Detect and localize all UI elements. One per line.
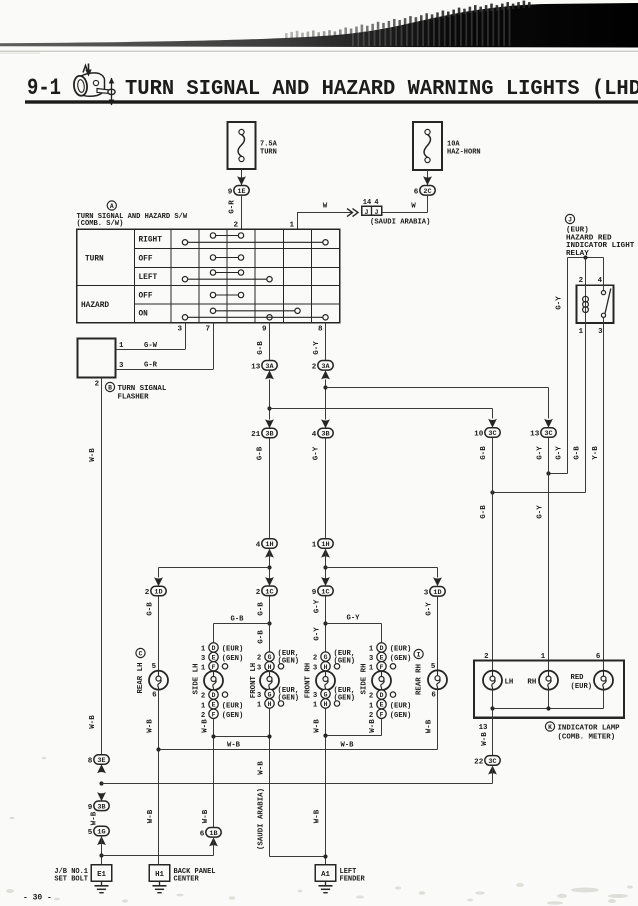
svg-text:TURN SIGNAL AND HAZARD WARNING: TURN SIGNAL AND HAZARD WARNING LIGHTS (L… xyxy=(125,77,638,101)
switch pin 2 label xyxy=(233,222,238,230)
svg-text:HAZARD RED: HAZARD RED xyxy=(566,234,612,242)
svg-text:2: 2 xyxy=(145,589,150,597)
wire 3C-22 to ground bus xyxy=(492,765,494,783)
svg-text:E: E xyxy=(212,655,216,662)
connector 1D pin 3 rear RH xyxy=(424,587,445,598)
Side LH connector F top xyxy=(201,662,228,673)
wire W-B side LH to front LH bus xyxy=(211,734,271,738)
svg-text:2: 2 xyxy=(95,381,99,389)
svg-text:W-B: W-B xyxy=(147,809,155,823)
svg-text:3B: 3B xyxy=(321,431,329,439)
Side RH connector D bottom xyxy=(369,690,396,701)
svg-text:4: 4 xyxy=(374,199,378,207)
svg-text:E: E xyxy=(380,655,384,662)
arrow into 3C pin 10 xyxy=(488,419,497,428)
switch table row group labels xyxy=(81,256,109,311)
junction dot rear-right branch xyxy=(323,565,327,569)
svg-text:REAR LH: REAR LH xyxy=(137,662,145,693)
svg-text:1: 1 xyxy=(119,342,124,350)
svg-text:8: 8 xyxy=(88,758,93,766)
svg-text:A1: A1 xyxy=(321,871,330,879)
svg-text:G-B: G-B xyxy=(257,630,265,644)
svg-text:3: 3 xyxy=(257,692,262,700)
svg-text:F: F xyxy=(212,664,216,671)
svg-text:F: F xyxy=(380,711,384,718)
Front RH connector G top xyxy=(313,650,355,666)
title text xyxy=(125,77,638,101)
svg-text:G-B: G-B xyxy=(257,446,265,460)
svg-text:HAZ-HORN: HAZ-HORN xyxy=(447,149,481,157)
svg-text:2: 2 xyxy=(256,589,261,597)
svg-text:ON: ON xyxy=(139,311,149,319)
svg-text:RH: RH xyxy=(527,678,536,686)
svg-text:H: H xyxy=(268,664,272,671)
arrow into connector 2C xyxy=(423,176,432,185)
indicator lamp RED EUR xyxy=(571,671,614,691)
svg-text:E1: E1 xyxy=(97,871,106,879)
connector 3C pin 10 xyxy=(474,428,500,439)
junction dot front lamps to A1 xyxy=(323,854,327,858)
Side RH connector F top xyxy=(369,662,396,673)
svg-text:1: 1 xyxy=(313,702,318,710)
wire W junction block to connector 2C xyxy=(382,203,428,213)
svg-text:SIDE RH: SIDE RH xyxy=(361,663,369,694)
combination switch contact table xyxy=(77,229,340,323)
svg-text:1: 1 xyxy=(201,702,206,710)
svg-text:(COMB. METER): (COMB. METER) xyxy=(558,734,616,742)
svg-text:G: G xyxy=(268,654,272,661)
svg-text:9: 9 xyxy=(262,326,267,334)
switch pin 1 label xyxy=(289,222,294,230)
Side LH turn signal lamp xyxy=(204,671,223,690)
svg-text:1: 1 xyxy=(257,702,262,710)
switch contacts TURN OFF xyxy=(210,255,243,260)
connector 3B pin 21 xyxy=(251,428,277,439)
indicator pin 13 wire W-B down xyxy=(479,709,493,756)
svg-text:4: 4 xyxy=(598,277,603,285)
svg-text:G-B: G-B xyxy=(257,602,265,616)
arrow into 3B pin 9 xyxy=(97,792,106,801)
rear RH lamp pin 6 xyxy=(431,691,436,699)
svg-text:3C: 3C xyxy=(488,430,496,438)
svg-text:W-B: W-B xyxy=(369,719,377,733)
junction block J J connector pins 14 4 xyxy=(362,199,382,216)
arrow into 3B pin 21 xyxy=(265,419,274,428)
Front RH connector H bottom xyxy=(313,699,340,710)
svg-text:W-B: W-B xyxy=(341,742,355,750)
relay pin 3 label and wire Y-B down to indicator xyxy=(592,317,604,671)
svg-text:F: F xyxy=(380,664,384,671)
rear LH lamp pin 6 xyxy=(152,691,157,699)
arrow into connector 1E xyxy=(237,176,246,185)
wire W-B front RH down to ground A1 xyxy=(314,719,326,865)
indicator internal ground bus xyxy=(490,690,603,711)
Front LH connector G top xyxy=(257,650,299,666)
svg-text:SET BOLT: SET BOLT xyxy=(54,876,88,884)
svg-text:H1: H1 xyxy=(155,871,164,879)
svg-text:(GEN): (GEN) xyxy=(222,712,244,720)
svg-text:2: 2 xyxy=(257,655,261,663)
fuse 10A HAZ-HORN xyxy=(413,122,481,170)
svg-text:(EUR): (EUR) xyxy=(390,702,412,710)
svg-text:W-B: W-B xyxy=(202,809,210,823)
svg-text:1G: 1G xyxy=(97,829,105,837)
wire branch to connector 3C pin 13 xyxy=(326,388,549,419)
Front RH connector G bottom xyxy=(313,687,355,703)
svg-text:FRONT RH: FRONT RH xyxy=(305,663,313,698)
label SAUDI ARABIA bottom xyxy=(258,788,266,850)
svg-text:H: H xyxy=(324,664,328,671)
indicator lamp K name label xyxy=(545,722,620,742)
svg-text:6: 6 xyxy=(431,691,436,699)
Side LH connector D top xyxy=(201,643,243,654)
wire G-B rear LH 1D to lamp xyxy=(147,596,159,671)
svg-text:(GEN): (GEN) xyxy=(390,712,412,720)
junction dot G-B branch xyxy=(267,406,271,410)
svg-text:HAZARD: HAZARD xyxy=(81,302,109,310)
connector 3A pin 13 xyxy=(251,361,277,372)
arrow into 1C pin 9 xyxy=(321,577,330,586)
svg-text:(SAUDI ARABIA): (SAUDI ARABIA) xyxy=(258,788,266,850)
flasher pin 2 label xyxy=(95,381,99,389)
svg-text:W-B: W-B xyxy=(481,732,489,746)
svg-text:1C: 1C xyxy=(265,588,273,596)
svg-text:G: G xyxy=(268,691,272,698)
svg-text:A: A xyxy=(110,203,114,210)
svg-text:3: 3 xyxy=(424,589,429,597)
svg-text:- 30 -: - 30 - xyxy=(23,894,52,903)
wire G-R connector 1E to switch pin 2 xyxy=(229,195,242,229)
svg-text:2: 2 xyxy=(201,712,205,720)
svg-text:2: 2 xyxy=(312,363,317,371)
connector 1D pin 2 rear LH xyxy=(145,586,166,597)
svg-text:G-Y: G-Y xyxy=(313,446,321,460)
relay box xyxy=(577,285,614,323)
arrow into 1C pin 2 xyxy=(265,577,274,586)
svg-text:3E: 3E xyxy=(97,757,105,765)
svg-text:INDICATOR LAMP: INDICATOR LAMP xyxy=(558,725,621,733)
svg-text:(GEN): (GEN) xyxy=(222,655,244,663)
arrow into 3C pin 13 xyxy=(544,419,553,428)
svg-text:22: 22 xyxy=(474,759,484,767)
wire G-Y branch to side RH xyxy=(323,615,381,643)
rear RH lamp pin 5 xyxy=(431,663,436,671)
svg-text:2: 2 xyxy=(369,712,373,720)
wire branch to rear RH connector 1D xyxy=(326,568,438,578)
relay J name label xyxy=(565,214,634,258)
wire fuse HAZ down to connector 2C xyxy=(427,170,429,186)
svg-text:8: 8 xyxy=(318,326,323,334)
svg-text:4: 4 xyxy=(256,542,261,550)
svg-text:W-B: W-B xyxy=(147,719,155,733)
junction dot ground bus line xyxy=(99,781,103,785)
svg-text:D: D xyxy=(380,645,384,652)
wire W-B front LH down to ground A1 join xyxy=(258,708,326,856)
svg-text:G-B: G-B xyxy=(231,616,245,624)
svg-text:2: 2 xyxy=(484,653,488,661)
Front RH connector H top xyxy=(313,662,340,673)
svg-text:I: I xyxy=(417,652,421,659)
svg-text:W-B: W-B xyxy=(426,719,434,733)
junction dot G-B relay to 3C-10 wire xyxy=(490,490,494,494)
wire G-B 3A down to 3B with branch xyxy=(269,379,271,419)
flasher B name label xyxy=(105,382,166,401)
svg-text:C: C xyxy=(139,651,143,658)
svg-text:9-1: 9-1 xyxy=(27,75,61,101)
svg-text:RIGHT: RIGHT xyxy=(139,237,163,245)
Side RH name label xyxy=(361,663,369,694)
ground point A1 LEFT FENDER xyxy=(315,865,365,884)
svg-text:W-B: W-B xyxy=(227,742,241,750)
svg-text:W: W xyxy=(411,203,416,211)
arrow into 3B pin 4 xyxy=(321,419,330,428)
svg-text:3B: 3B xyxy=(265,431,273,439)
relay top feed wire xyxy=(568,257,604,259)
wire G-Y connector 3C-13 down to indicator RH xyxy=(537,437,549,671)
connector 3C pin 22 xyxy=(474,756,500,767)
svg-text:G-Y: G-Y xyxy=(556,296,564,310)
connector 1C pin 9 xyxy=(312,586,333,597)
svg-text:SIDE LH: SIDE LH xyxy=(193,663,201,694)
svg-text:1H: 1H xyxy=(265,541,273,549)
wire G-B 3B-21 down to 1H xyxy=(257,438,270,539)
svg-text:3: 3 xyxy=(201,655,206,663)
svg-text:9: 9 xyxy=(228,188,233,196)
arrow into connector 3A right xyxy=(321,370,330,379)
Front RH turn signal lamp xyxy=(316,671,335,690)
svg-text:G-R: G-R xyxy=(229,200,237,214)
wire W-B flasher pin 2 down to connector 3E xyxy=(89,378,102,756)
svg-text:G-Y: G-Y xyxy=(313,341,321,355)
switch pin 8 label xyxy=(318,326,323,334)
wire G-Y relay feed down-left xyxy=(556,258,568,474)
svg-text:W-B: W-B xyxy=(314,719,322,733)
switch table row labels xyxy=(139,237,163,319)
connector 3B pin 4 xyxy=(312,428,333,439)
ground symbol A1 xyxy=(319,881,333,892)
svg-text:1D: 1D xyxy=(433,589,441,597)
svg-text:3: 3 xyxy=(598,328,603,336)
arrow into 1D pin 3 xyxy=(433,577,442,586)
rear RH turn signal lamp xyxy=(428,670,447,689)
svg-text:3: 3 xyxy=(313,664,318,672)
svg-text:(GEN): (GEN) xyxy=(334,658,356,666)
svg-text:W-B: W-B xyxy=(89,448,97,462)
svg-text:INDICATOR LIGHT: INDICATOR LIGHT xyxy=(566,242,635,250)
svg-text:OFF: OFF xyxy=(139,256,153,264)
switch pin 7 label xyxy=(205,326,210,334)
connector 2C pin 6 xyxy=(414,186,435,197)
Front LH name label xyxy=(250,663,258,698)
switch contacts TURN RIGHT xyxy=(182,233,328,245)
indicator pin 2 label xyxy=(484,653,488,661)
Side RH turn signal lamp xyxy=(372,671,391,690)
svg-text:(GEN): (GEN) xyxy=(390,655,412,663)
svg-text:LEFT: LEFT xyxy=(139,274,158,282)
svg-text:7: 7 xyxy=(205,326,210,334)
svg-text:4: 4 xyxy=(312,431,317,439)
svg-text:1B: 1B xyxy=(209,830,217,838)
Side LH connector D bottom xyxy=(201,690,228,701)
junction dot relay pin 2 feed xyxy=(583,255,587,259)
Side RH connector E bottom xyxy=(369,700,411,711)
connector 3A pin 2 xyxy=(312,361,333,372)
svg-text:14: 14 xyxy=(363,199,371,207)
junction block J/B arrows xyxy=(347,209,358,217)
svg-text:13: 13 xyxy=(479,724,488,732)
wire W-B rear RH down to rear bus xyxy=(426,689,438,749)
svg-text:REAR RH: REAR RH xyxy=(415,664,423,695)
svg-text:TURN SIGNAL: TURN SIGNAL xyxy=(118,385,167,393)
arrow into 1H pin 1 xyxy=(321,549,330,558)
rear LH turn signal lamp xyxy=(149,671,168,690)
switch contacts HAZARD ON xyxy=(182,308,328,320)
svg-text:Y-B: Y-B xyxy=(592,446,600,460)
svg-text:1: 1 xyxy=(312,542,317,550)
svg-text:G-B: G-B xyxy=(147,602,155,616)
relay pin 2 wire and label xyxy=(579,258,586,296)
arrow into connector 3A left xyxy=(265,370,274,379)
svg-text:G-Y: G-Y xyxy=(313,599,321,613)
svg-text:2: 2 xyxy=(579,277,583,285)
wire G-B connector 3C-10 down to indicator LH xyxy=(480,437,493,671)
connector 1C pin 2 xyxy=(256,586,277,597)
svg-text:(GEN): (GEN) xyxy=(278,658,300,666)
svg-text:W-B: W-B xyxy=(314,809,322,823)
svg-text:3: 3 xyxy=(177,326,182,334)
svg-text:G-R: G-R xyxy=(144,362,158,370)
wire G-Y switch pin 8 to connector 3A xyxy=(313,323,326,361)
svg-text:9: 9 xyxy=(88,804,93,812)
wire G-Y 3A down to 3B with branch xyxy=(325,379,327,419)
svg-text:1: 1 xyxy=(579,328,584,336)
svg-text:6: 6 xyxy=(414,188,419,196)
svg-text:5: 5 xyxy=(152,663,157,671)
svg-text:G-B: G-B xyxy=(574,446,582,460)
svg-text:G-Y: G-Y xyxy=(313,627,321,641)
svg-text:6: 6 xyxy=(596,653,601,661)
svg-text:TURN: TURN xyxy=(260,149,277,157)
wire W-B ground bus to indicator 3C-22 xyxy=(102,783,493,785)
relay coil xyxy=(583,295,589,313)
svg-text:FLASHER: FLASHER xyxy=(118,393,150,401)
connector 1H pin 4 xyxy=(256,539,277,550)
svg-text:D: D xyxy=(212,645,216,652)
wire W-B rear LH lamp down to ground H1 xyxy=(147,690,159,865)
svg-text:G-B: G-B xyxy=(480,446,488,460)
turn signal flasher B box xyxy=(78,339,116,378)
svg-text:1: 1 xyxy=(369,646,374,654)
svg-text:G-Y: G-Y xyxy=(556,446,564,460)
svg-text:W: W xyxy=(323,203,328,211)
svg-text:(EUR): (EUR) xyxy=(571,683,593,691)
svg-text:FENDER: FENDER xyxy=(340,876,366,884)
wire W-B side RH to front RH junction xyxy=(323,719,381,738)
svg-text:10A: 10A xyxy=(447,141,460,149)
svg-text:(COMB. S/W): (COMB. S/W) xyxy=(77,220,124,228)
svg-text:1D: 1D xyxy=(154,589,162,597)
svg-text:1H: 1H xyxy=(321,541,329,549)
Side RH connector E top xyxy=(369,652,411,663)
connector 3C pin 13 xyxy=(530,428,556,439)
title section number 9-1 xyxy=(27,75,61,101)
connector 1H pin 1 xyxy=(312,539,333,550)
svg-text:3: 3 xyxy=(119,362,124,370)
junction dot G-Y branch xyxy=(323,385,327,389)
indicator lamp LH xyxy=(483,671,513,690)
ground point E1 J/B NO.1 SET BOLT xyxy=(54,865,111,884)
svg-text:(EUR): (EUR) xyxy=(390,646,412,654)
svg-text:2: 2 xyxy=(201,693,205,701)
relay switch contacts xyxy=(601,289,610,318)
Front LH connector H bottom xyxy=(257,699,284,710)
Front LH connector G bottom xyxy=(257,687,299,703)
svg-text:CENTER: CENTER xyxy=(174,876,200,884)
title underline xyxy=(25,100,638,103)
connector 1E pin 9 xyxy=(228,186,249,197)
svg-text:13: 13 xyxy=(251,363,261,371)
svg-text:(EUR): (EUR) xyxy=(222,702,244,710)
ground point H1 BACK PANEL CENTER xyxy=(149,865,215,884)
svg-text:3C: 3C xyxy=(544,430,552,438)
fuse 7.5A TURN xyxy=(228,122,278,169)
Front LH turn signal lamp xyxy=(260,671,279,690)
switch pin 9 label xyxy=(262,326,267,334)
svg-text:6: 6 xyxy=(152,691,157,699)
svg-text:W-B: W-B xyxy=(89,715,97,729)
svg-text:3C: 3C xyxy=(488,758,496,766)
wire 1G to ground E1 xyxy=(99,836,103,865)
wire W-B rear lamps bus xyxy=(156,742,437,752)
svg-text:9: 9 xyxy=(312,589,317,597)
switch A label TURN SIGNAL AND HAZARD S/W xyxy=(77,201,188,228)
svg-text:5: 5 xyxy=(88,829,93,837)
svg-text:3B: 3B xyxy=(97,803,105,811)
svg-text:(EUR): (EUR) xyxy=(222,646,244,654)
wire G-Y rear RH 1D to lamp xyxy=(426,596,438,670)
Side RH connector D top xyxy=(369,643,411,654)
wire G-B 1H to 1C xyxy=(269,548,271,586)
wire G-Y 1H to 1C xyxy=(325,548,327,586)
svg-text:2C: 2C xyxy=(423,188,431,196)
svg-text:W-B: W-B xyxy=(201,719,209,733)
svg-text:1: 1 xyxy=(541,653,546,661)
wire G-B switch pin 9 to connector 3A xyxy=(257,323,270,361)
rear RH lamp name I xyxy=(414,649,423,658)
svg-text:G-B: G-B xyxy=(480,505,488,519)
Front LH connector H top xyxy=(257,662,284,673)
svg-text:K: K xyxy=(548,724,552,731)
connector 1G pin 5 xyxy=(88,826,109,837)
svg-text:G: G xyxy=(324,654,328,661)
svg-text:G-Y: G-Y xyxy=(347,615,361,623)
wire W-B side LH down to connector 1B xyxy=(201,719,213,828)
arrow into 1H pin 4 xyxy=(265,549,274,558)
Side LH connector E bottom xyxy=(201,700,243,711)
arrow into 1G pin 5 xyxy=(97,836,106,845)
Side LH connector F bottom xyxy=(201,709,243,720)
svg-text:1: 1 xyxy=(369,664,374,672)
wire G-Y relay feed label xyxy=(556,446,564,460)
arrow into 1D pin 2 xyxy=(154,577,163,586)
connector 3E pin 8 xyxy=(88,755,109,774)
switch pin 3 label xyxy=(177,326,182,334)
ground symbol H1 xyxy=(153,881,167,892)
svg-text:J: J xyxy=(365,209,369,216)
arrow into 3C pin 22 xyxy=(488,766,497,775)
wire W switch pin 1 to junction block xyxy=(298,203,353,230)
rear LH lamp name C xyxy=(136,648,145,657)
